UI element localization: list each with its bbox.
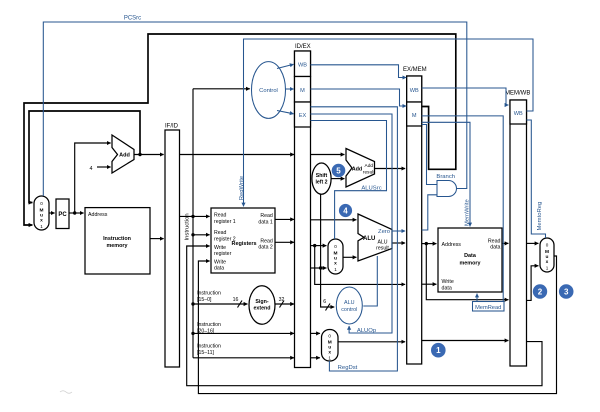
wire: ALUSrc mux output to ALU: [343, 256, 356, 258]
wire: branch target feedback loop to PC mux input 1: [24, 34, 456, 225]
wire: instruction 15-11 to ID/EX: [193, 357, 294, 359]
data memory: [438, 228, 502, 292]
sign-extend unit: [249, 286, 275, 324]
node: ALU result junction: [425, 242, 428, 245]
svg-text:x: x: [334, 262, 337, 267]
wire: Control to ID/EX EX: [277, 111, 294, 114]
svg-text:Registers: Registers: [232, 241, 257, 247]
wire: data memory read data to MEM/WB: [502, 242, 508, 244]
svg-text:IF/ID: IF/ID: [165, 124, 179, 130]
svg-text:ALUSrc: ALUSrc: [361, 185, 381, 191]
wire: ALUOp control to ALU control: [311, 114, 393, 333]
wire: PC+4 from IF/ID to ID/EX: [180, 154, 295, 156]
shift left 2 unit: [312, 163, 331, 194]
pipeline register ID/EX: [295, 44, 311, 368]
marker circle 5: [332, 164, 346, 178]
svg-text:MemtoReg: MemtoReg: [537, 202, 543, 231]
svg-text:Branch: Branch: [436, 174, 455, 180]
svg-text:M: M: [300, 88, 305, 94]
svg-text:Read: Read: [214, 213, 227, 219]
svg-text:data: data: [490, 245, 500, 251]
svg-text:Instruction: Instruction: [197, 291, 221, 297]
pipeline register MEM/WB: [505, 91, 530, 367]
svg-text:ALU: ALU: [344, 300, 355, 306]
wire: MEM/WB ALU result to MemtoReg mux input 1: [527, 266, 539, 301]
wire: ALU result to EX/MEM: [392, 242, 405, 244]
svg-text:data 2: data 2: [258, 245, 273, 251]
pipeline register IF/ID: [165, 124, 180, 368]
svg-text:M: M: [412, 113, 417, 119]
svg-text:control: control: [341, 307, 357, 313]
svg-text:2: 2: [538, 288, 543, 297]
wire: immediate to ALUSrc mux input 1: [311, 267, 327, 269]
wire: RegWrite from MEM/WB to Registers: [244, 39, 534, 206]
mux RegDst: [322, 330, 339, 362]
wire: register number EX/MEM to MEM/WB: [422, 340, 509, 342]
svg-text:result: result: [363, 170, 375, 176]
wire: write data feedback from MemtoReg mux to Registers: [198, 256, 556, 394]
wire: instruction 20-16 to RegDst mux input 0: [311, 332, 320, 334]
svg-text:Read: Read: [260, 213, 273, 219]
wire: instruction 20-16 to ID/EX: [193, 332, 294, 334]
svg-text:WB: WB: [514, 111, 523, 117]
wire: immediate up to shift left 2: [320, 194, 322, 268]
svg-text:1: 1: [436, 346, 441, 355]
svg-text:Zero: Zero: [378, 229, 390, 235]
label: MemRead boxed: [473, 302, 505, 312]
svg-text:6: 6: [323, 299, 326, 305]
wire: read data 1 to ALU: [311, 219, 357, 221]
svg-text:WB: WB: [410, 88, 419, 94]
svg-text:EX/MEM: EX/MEM: [403, 67, 427, 73]
svg-text:4: 4: [90, 166, 93, 172]
adder Add (branch target): [346, 149, 375, 188]
wire: PC mux output to PC: [49, 212, 55, 214]
svg-text:data: data: [442, 286, 452, 292]
wire: PCSrc from AND gate to PC mux select: [43, 22, 467, 196]
wire: branch Add result to EX/MEM: [375, 168, 406, 170]
wire: PC+4 to branch Add: [311, 154, 345, 156]
node: instruction bus junction read reg 2: [191, 233, 194, 236]
svg-text:Write: Write: [214, 259, 226, 265]
wire: ALUSrc control to ALUSrc mux: [311, 121, 387, 240]
wire: MemtoReg control to MemtoReg mux: [527, 120, 546, 238]
wire: ALU result to data memory Address: [422, 243, 437, 245]
svg-text:Instruction: Instruction: [103, 236, 131, 242]
wire: ALU result down and right to MEM/WB: [426, 244, 508, 300]
svg-text:1: 1: [546, 266, 549, 271]
svg-text:EX: EX: [299, 113, 307, 119]
wire: instruction to Read register 1: [180, 215, 210, 217]
svg-text:Control: Control: [259, 88, 278, 94]
svg-text:memory: memory: [107, 243, 128, 249]
mux PCSrc (PC select): [34, 196, 49, 230]
wire: Control to ID/EX WB: [277, 64, 294, 68]
svg-text:1: 1: [328, 356, 331, 361]
svg-text:Address: Address: [88, 212, 108, 218]
svg-text:register: register: [214, 251, 232, 257]
wire: shift left 2 to branch Add: [331, 178, 344, 180]
svg-text:extend: extend: [253, 305, 270, 311]
wire: PC up to Add input: [75, 143, 111, 213]
wire: Control to ID/EX M: [286, 88, 294, 90]
svg-text:[20–16]: [20–16]: [197, 329, 215, 335]
mux ALUSrc: [328, 239, 343, 274]
svg-text:Read: Read: [260, 238, 273, 244]
wire: ID/EX WB to EX/MEM WB: [311, 65, 407, 78]
wire: instruction to Read register 2: [193, 234, 210, 236]
wire: PC to instruction memory Address: [69, 212, 84, 214]
marker circle 3: [559, 284, 574, 299]
svg-text:ID/EX: ID/EX: [295, 44, 311, 50]
wire: read data 2 down to EX/MEM write data: [315, 246, 405, 285]
registers block: [211, 208, 275, 273]
wire: write data EX/MEM to data memory: [422, 283, 437, 285]
svg-text:Write: Write: [442, 279, 454, 285]
wire: Read data 1 to ID/EX: [275, 218, 294, 220]
node: instruction bus junction read reg 1: [191, 215, 194, 218]
svg-text:Write: Write: [214, 245, 226, 251]
svg-text:Add: Add: [365, 163, 374, 169]
svg-text:MemRead: MemRead: [475, 305, 501, 311]
node: instruction bus junction 20-16: [191, 332, 194, 335]
svg-text:1: 1: [40, 224, 43, 229]
svg-text:Sign-: Sign-: [255, 299, 268, 305]
svg-text:data 1: data 1: [258, 219, 273, 225]
svg-text:Address: Address: [442, 242, 462, 248]
wire: RegDst control to RegDst mux: [311, 107, 398, 371]
svg-text:x: x: [40, 219, 43, 224]
wire: write register number feedback from MEM/WB to Registers: [187, 246, 542, 386]
wire: Zero flag EX/MEM to AND gate: [422, 195, 437, 230]
svg-text:0: 0: [40, 201, 43, 206]
node: PC+4 junction: [138, 153, 141, 156]
svg-text:x: x: [546, 260, 549, 265]
artifact: faint gray mark bottom left: [60, 391, 72, 394]
svg-text:register 1: register 1: [214, 219, 236, 225]
svg-text:Data: Data: [464, 253, 477, 259]
svg-text:Shift: Shift: [316, 173, 328, 179]
ALU control unit: [336, 287, 362, 324]
svg-text:PC: PC: [58, 212, 67, 218]
instruction memory: [85, 208, 150, 274]
mux MemtoReg: [540, 238, 554, 272]
svg-text:5: 5: [336, 167, 341, 176]
node: read data 2 junction: [313, 244, 316, 247]
svg-text:[15–11]: [15–11]: [197, 350, 214, 356]
ALU U1: [358, 214, 392, 261]
svg-text:ALUOp: ALUOp: [357, 328, 377, 334]
wire: RegDst mux output to EX/MEM: [338, 341, 405, 343]
svg-text:Instruction: Instruction: [197, 322, 221, 328]
node: instruction bus junction 15-0: [191, 302, 194, 305]
wire: ALU control to ALU: [363, 256, 377, 306]
pipeline register EX/MEM: [403, 67, 427, 364]
wire: instruction bus vertical: [192, 89, 194, 358]
svg-text:Instruction: Instruction: [185, 213, 191, 240]
svg-text:ALU: ALU: [363, 236, 375, 242]
svg-text:left 2: left 2: [315, 180, 327, 186]
wire: Read data 2 to ID/EX: [275, 241, 294, 243]
marker circle 1: [431, 343, 446, 358]
svg-text:memory: memory: [460, 260, 481, 266]
svg-text:Add: Add: [119, 153, 130, 159]
wire: EX/MEM WB to MEM/WB WB: [422, 88, 509, 105]
wire: sign-extend output to ID/EX: [275, 303, 294, 305]
svg-text:RegDst: RegDst: [338, 365, 358, 371]
svg-text:Add: Add: [352, 167, 362, 173]
marker circle 4: [339, 204, 352, 217]
wire: read data 2 to ALUSrc mux input 0: [311, 245, 327, 247]
svg-text:Read: Read: [488, 238, 501, 244]
wire: instruction to Control: [193, 88, 250, 90]
wire: immediate 5-0 down to ALU control: [321, 268, 335, 307]
svg-text:0: 0: [334, 244, 337, 249]
wire: Add output to IF/ID: [134, 154, 164, 156]
svg-text:Instruction: Instruction: [197, 344, 221, 350]
svg-text:0: 0: [546, 243, 549, 248]
svg-text:WB: WB: [298, 63, 307, 69]
svg-text:PCSrc: PCSrc: [124, 16, 141, 22]
node: immediate junction: [319, 266, 322, 269]
AND gate (branch): [436, 174, 456, 196]
register PC: [56, 199, 69, 229]
svg-text:4: 4: [343, 207, 348, 216]
wire: instruction 15-0 to sign-extend: [193, 303, 247, 305]
svg-text:result: result: [376, 246, 389, 252]
svg-text:1: 1: [334, 267, 337, 272]
wire: instruction memory to IF/ID: [150, 238, 164, 240]
node: PC output junction: [73, 211, 76, 214]
wire: Branch control to AND gate: [422, 125, 437, 185]
wire: PC+4 feedback loop to PC mux input 0: [29, 111, 140, 203]
adder Add (PC+4): [112, 135, 134, 173]
wire: instruction 15-11 to RegDst mux input 1: [311, 357, 320, 359]
svg-text:data: data: [214, 266, 224, 272]
control unit: [252, 62, 286, 119]
wire: constant 4 to Add: [97, 166, 111, 168]
wire: Zero flag ALU to EX/MEM: [392, 230, 405, 232]
wire: MemWrite control to data memory: [422, 122, 470, 226]
svg-text:MEM/WB: MEM/WB: [505, 91, 530, 97]
svg-text:[15–0]: [15–0]: [197, 297, 212, 303]
svg-text:RegWrite: RegWrite: [239, 175, 245, 200]
svg-text:16: 16: [233, 297, 239, 303]
svg-text:0: 0: [328, 334, 331, 339]
wire: ID/EX M to EX/MEM M: [311, 89, 407, 106]
wire: MemRead control to data memory: [422, 116, 504, 306]
svg-text:3: 3: [564, 288, 569, 297]
marker circle 2: [533, 284, 547, 298]
wire: MEM/WB read data to MemtoReg mux input 0: [527, 242, 539, 244]
svg-text:MemWrite: MemWrite: [465, 199, 471, 226]
svg-text:Read: Read: [214, 230, 227, 236]
